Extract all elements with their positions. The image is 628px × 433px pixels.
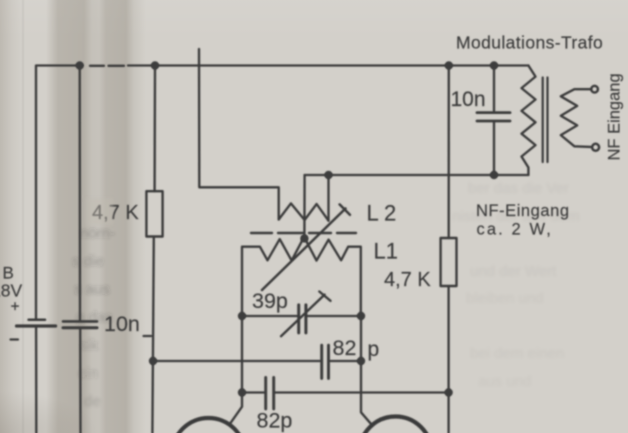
svg-text:de: de — [84, 393, 101, 410]
svg-text:p: p — [368, 338, 380, 361]
node y175-C10n right — [490, 171, 498, 179]
svg-text:Modulations-Trafo: Modulations-Trafo — [456, 33, 603, 53]
transformer secondary winding — [561, 89, 591, 147]
wire right branch to transistor T2 base — [361, 316, 372, 425]
svg-text:aus und: aus und — [478, 373, 531, 390]
inductor L2 winding — [279, 203, 329, 220]
node bus-R4,7K left — [151, 61, 159, 69]
minus mark below battery — [11, 338, 19, 340]
wire resistor R 4,7K left bottom lead — [152, 237, 153, 433]
wire mid horizontal net y=175 — [305, 174, 529, 176]
node bus-C10n right — [490, 61, 498, 69]
svg-text:nörn-: nörn- — [80, 225, 115, 242]
ghost bleed-through text layer — [72, 180, 580, 410]
wire L2 right end to node — [327, 175, 329, 221]
svg-text:s die: s die — [72, 253, 104, 270]
wire capacitor C 10n left bottom lead — [79, 328, 82, 433]
wire resistor R 4,7K right top lead — [448, 66, 450, 239]
wire capacitor C 10n right bottom lead — [493, 123, 495, 176]
svg-text:+: + — [11, 299, 20, 316]
svg-text:ca. 2 W,: ca. 2 W, — [477, 221, 553, 239]
trimmer capacitor 39p arrow — [281, 292, 331, 337]
svg-text:ber das die Ver: ber das die Ver — [468, 180, 569, 197]
terminal NF Eingang bottom — [592, 144, 599, 151]
battery B 18V plate short — [29, 319, 45, 322]
svg-text:L1: L1 — [374, 239, 398, 264]
resistor R 4,7K left body — [146, 191, 162, 236]
capacitor C 82p lower plates — [266, 378, 274, 409]
node y316 left — [238, 312, 246, 320]
svg-text:4,7 K: 4,7 K — [384, 269, 431, 291]
node y361 left — [149, 357, 157, 365]
node y392 right — [444, 388, 452, 396]
svg-text:sik: sik — [80, 337, 99, 354]
svg-text:18V: 18V — [0, 281, 22, 301]
adjustment arrow through L1 L2 — [262, 204, 350, 290]
wire battery negative lead — [35, 326, 38, 433]
node y316 right — [357, 312, 365, 320]
transistor T2 body — [360, 417, 432, 433]
wire capacitor C 10n left top lead — [79, 66, 82, 321]
transistor T1 body — [172, 418, 245, 433]
svg-text:82p: 82p — [257, 409, 293, 433]
svg-text:und der Wert: und der Wert — [470, 263, 557, 280]
svg-text:10n: 10n — [104, 312, 140, 336]
wire resistor R 4,7K left top lead — [153, 66, 156, 192]
capacitor C 82p upper plates — [322, 345, 329, 378]
svg-text:bei dem einen: bei dem einen — [470, 345, 564, 362]
wire capacitor C 10n right top lead — [493, 66, 495, 112]
capacitor C 10n left plates — [63, 320, 97, 323]
battery B 18V plate long — [17, 324, 56, 327]
node bus-R4,7K right — [445, 61, 453, 69]
svg-text:10n: 10n — [451, 88, 486, 111]
wire net y=392.5 — [242, 391, 449, 393]
node bus-battery/C10n — [76, 61, 84, 69]
scan washout over left 4,7K label — [86, 198, 113, 225]
wire top supply bus — [36, 66, 528, 319]
wire resistor R 4,7K right bottom lead — [447, 286, 449, 433]
minus mark right of 10n — [144, 335, 152, 337]
wire trimmer net y=316 — [242, 315, 361, 317]
wire tap through L2 to L1 centre — [303, 175, 306, 238]
svg-text:bleiben und: bleiben und — [466, 290, 544, 307]
node y361 right — [357, 357, 365, 365]
inductor L1 winding — [242, 237, 361, 316]
wire L2 feed from bus (stub + drop + horizontal) — [199, 49, 279, 220]
trimmer capacitor 39p plates — [299, 305, 306, 333]
capacitor C 10n right plates — [477, 113, 510, 121]
core dashed coupling line — [251, 232, 356, 234]
wire net y=361 — [153, 360, 361, 362]
node y175-L2 — [324, 171, 332, 179]
svg-text:NF Eingang: NF Eingang — [606, 73, 624, 160]
svg-text:NF-Eingang: NF-Eingang — [476, 202, 570, 220]
svg-text:L 2: L 2 — [367, 201, 397, 226]
transformer primary winding — [522, 66, 536, 176]
node L1 centre tap — [300, 234, 308, 242]
svg-text:82: 82 — [333, 336, 357, 360]
transformer core — [543, 78, 548, 163]
wire left branch to transistor T1 base — [229, 316, 242, 425]
terminal NF Eingang top — [591, 86, 598, 93]
resistor R 4,7K right body — [441, 238, 457, 286]
node y392 left — [238, 388, 246, 396]
svg-text:39p: 39p — [252, 289, 288, 313]
